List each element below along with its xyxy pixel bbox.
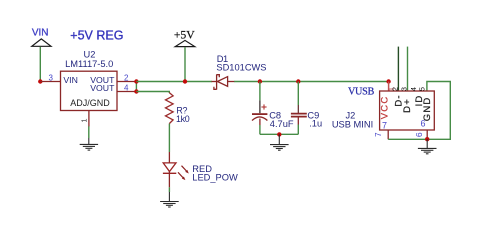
wire J2.D+ [407,47,409,91]
junction dot +5V [183,79,187,83]
svg-text:LED_POW: LED_POW [192,172,238,182]
svg-text:1: 1 [79,118,88,122]
svg-text:SD101CWS: SD101CWS [216,63,266,73]
capacitor C9 bottom plate [291,116,307,118]
op-amp U2 body [61,71,118,110]
pin C9 top [297,105,299,113]
wire +5V rail right [234,81,389,83]
capacitor C9 top plate [291,113,307,115]
svg-text:4: 4 [124,83,129,92]
svg-text:6: 6 [414,132,424,137]
svg-text:3: 3 [400,87,409,91]
svg-text:2: 2 [390,87,399,91]
svg-text:3: 3 [48,74,53,83]
wire C9 up [297,82,299,106]
junction dot ground [277,132,281,136]
pin J2.6 [426,130,428,139]
pin U2.2 [117,81,136,83]
svg-text:5: 5 [418,87,427,91]
svg-text:ADJ/GND: ADJ/GND [70,98,110,108]
pin J2.VCC [388,82,390,92]
pin J2.7 [387,130,389,139]
LED triangle [163,163,176,172]
svg-text:VOUT: VOUT [90,83,115,93]
LED emission arrow 2 [178,172,185,180]
wire pin4 to resistor [136,92,169,94]
wire C8 down [259,125,261,134]
ground symbol LED [160,192,179,207]
pin U2.4 [117,91,136,93]
ground symbol U2 [80,138,98,150]
svg-text:VCC: VCC [380,96,391,120]
svg-text:+5V: +5V [174,28,195,41]
junction dot VCC [386,79,390,83]
power flag +5V [175,40,195,46]
junction dot pin4 [134,89,138,93]
capacitor C8 top plate [252,113,267,115]
LED emission arrow 1 [182,166,189,174]
wire resistor to LED [168,124,170,152]
wire C9 down [297,125,299,135]
wire J2.GND loop [427,82,450,140]
junction dot C9 [296,79,300,83]
wire +5V rail left [136,81,212,83]
svg-text:7: 7 [382,121,387,131]
pin C9 bottom [297,117,299,124]
wire J2.D- [397,47,399,91]
svg-text:VUSB: VUSB [348,86,374,97]
pin LED cathode [168,172,170,188]
svg-text:VIN: VIN [32,27,49,38]
junction dot VIN [38,79,42,83]
capacitor C8 bottom plate (arc) [252,117,267,121]
svg-text:D+: D+ [402,98,413,113]
svg-text:1k0: 1k0 [176,114,190,124]
svg-text:2: 2 [124,73,129,82]
junction dot pin2 [134,79,138,83]
pin C8 top [259,100,261,113]
pin C8 bottom [259,119,261,125]
svg-text:+5V REG: +5V REG [70,28,123,42]
svg-text:4.7uF: 4.7uF [270,119,294,129]
diode D1 (schottky) [212,74,235,89]
ground symbol C8/C9 [270,134,289,150]
svg-text:VIN: VIN [63,75,77,85]
connector J2 body [380,91,435,130]
svg-text:7: 7 [374,132,383,137]
resistor R? [166,93,174,124]
wire ground rail C8-C9 [260,133,298,135]
junction dot C8 [258,79,262,83]
wire C8 up [259,82,261,101]
svg-text:LM1117-5.0: LM1117-5.0 [65,59,113,69]
wire +5V stem [184,47,186,81]
wire LED to ground [168,187,170,192]
wire joining pins 2 and 4 [135,82,137,92]
svg-text:6: 6 [420,118,425,128]
svg-text:.1u: .1u [309,118,322,128]
power flag VIN [32,39,51,46]
LED cathode bar [163,172,176,174]
svg-text:USB MINI: USB MINI [332,119,373,129]
pin LED anode [168,152,170,163]
wire ADJ to ground [88,126,90,138]
pin U2.1 ADJ/GND [88,111,90,127]
junction dot J2 ground [425,137,429,141]
plus sign C8 [261,104,266,109]
wire VIN stem [39,47,41,82]
pin U2.3 [40,81,60,83]
wire J2 bottom [388,138,427,140]
ground symbol J2 [418,139,437,154]
